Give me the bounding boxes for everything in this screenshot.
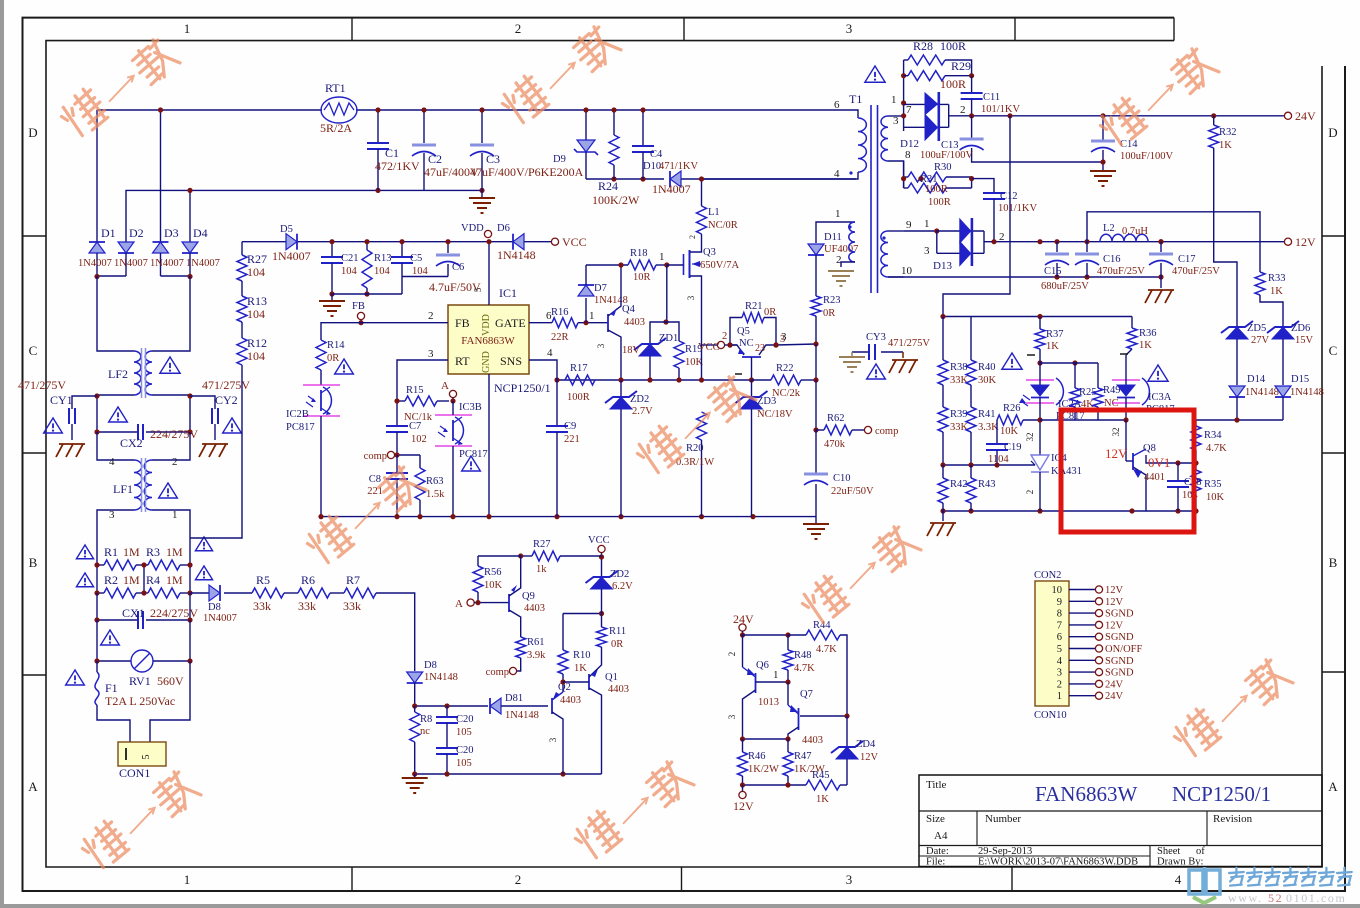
diode D1 [89,242,105,253]
svg-text:NC/0R: NC/0R [708,220,738,231]
svg-text:D81: D81 [505,693,523,704]
svg-text:NC/18V: NC/18V [757,409,793,420]
svg-text:0R: 0R [823,308,835,319]
svg-text:471/275V: 471/275V [202,378,250,392]
svg-text:1: 1 [184,872,191,887]
resistor R44 [806,630,840,640]
svg-text:471/275V: 471/275V [888,338,930,349]
wire to LF1 [97,432,134,460]
node R23 bottom [813,341,818,346]
R30 parallel pair [903,161,905,188]
svg-text:12V: 12V [1105,585,1124,596]
svg-text:30K: 30K [978,375,997,386]
wire VCC tap [701,345,703,380]
TVS D9 [585,110,587,140]
svg-text:ZD2: ZD2 [610,569,629,580]
svg-text:560V: 560V [157,674,184,688]
svg-text:2: 2 [172,456,178,468]
transistor Q6 [742,635,744,667]
svg-text:R34: R34 [1204,430,1222,441]
svg-text:470uF/25V: 470uF/25V [1097,266,1145,277]
svg-text:C20: C20 [456,714,474,725]
wire RT pin [397,360,448,401]
svg-text:C: C [29,343,38,358]
svg-text:4403: 4403 [624,317,645,328]
svg-text:3: 3 [846,872,853,887]
svg-text:R46: R46 [748,751,766,762]
svg-text:3: 3 [109,509,115,521]
svg-text:1: 1 [184,21,191,36]
thermistor RT1 [321,97,357,123]
bottom rail and ground [415,773,602,775]
svg-text:10K: 10K [685,357,704,368]
svg-text:0V1: 0V1 [1148,455,1170,470]
IC2B emitter wire [320,416,322,517]
svg-text:R61: R61 [527,637,545,648]
svg-text:C20: C20 [456,745,474,756]
IC U1 FAN6863W [448,305,529,374]
svg-text:3: 3 [1057,668,1062,679]
svg-text:R1: R1 [104,545,118,559]
svg-text:9: 9 [906,219,912,231]
svg-text:22R: 22R [551,332,569,343]
svg-text:nc: nc [420,726,430,737]
svg-text:221: 221 [564,434,580,445]
svg-text:NCP1250/1: NCP1250/1 [494,381,551,395]
svg-text:GATE: GATE [495,316,526,330]
svg-text:12V: 12V [1105,597,1124,608]
svg-text:4.7K: 4.7K [816,644,837,655]
svg-text:8: 8 [1057,609,1062,620]
svg-text:3: 3 [781,331,787,343]
svg-text:224/275V: 224/275V [150,606,198,620]
svg-text:RT1: RT1 [325,81,346,95]
wire top rail [97,109,322,111]
svg-text:CY1: CY1 [50,393,73,407]
terminal comp2 [509,667,516,674]
terminal comp [387,451,394,458]
diode D7 [585,298,587,323]
T1 secondary 1 [881,116,888,161]
svg-text:1: 1 [891,94,897,106]
wire to LF2 [97,276,134,351]
svg-text:24V: 24V [1105,691,1124,702]
svg-text:C15: C15 [1044,266,1062,277]
svg-text:10: 10 [901,265,913,277]
terminal comp3 [864,426,871,433]
svg-text:D: D [1328,125,1337,140]
wire GND pin [488,374,490,517]
capacitor C19 [996,420,998,444]
svg-text:PC817: PC817 [286,422,315,433]
svg-text:1K: 1K [1219,140,1232,151]
svg-text:C6: C6 [452,262,464,273]
capacitor C4 [642,110,644,146]
svg-text:C16: C16 [1103,254,1121,265]
svg-text:1N4007: 1N4007 [150,258,184,269]
common mode choke LF1 [134,460,142,510]
svg-text:33k: 33k [298,599,316,613]
capacitor C12 [972,179,994,193]
resistor R13b [366,242,368,250]
svg-text:3: 3 [846,21,853,36]
shunt reg IC4 KA431 [1039,420,1041,455]
rail 739 [743,738,789,740]
svg-text:R20: R20 [686,443,704,454]
diode D81 [490,698,501,714]
warning triangle [160,357,180,373]
svg-text:R63: R63 [426,476,444,487]
MOSFET Q3 [683,254,685,275]
svg-text:472/1KV: 472/1KV [375,159,420,173]
resistor R28 [908,55,945,65]
svg-text:2: 2 [515,872,522,887]
capacitor C21 [331,242,333,257]
svg-text:ON/OFF: ON/OFF [1105,644,1143,655]
svg-text:ZD4: ZD4 [856,739,876,750]
svg-text:D4: D4 [193,226,208,240]
optocoupler IC3B [435,414,472,416]
svg-text:Date:: Date: [926,846,949,857]
svg-text:Drawn By:: Drawn By: [1157,857,1203,868]
svg-text:NC: NC [739,338,754,349]
wire [284,592,298,594]
T1 secondary 2 [881,231,888,277]
svg-text:D12: D12 [900,138,919,150]
capacitor CY1 [72,396,97,409]
svg-text:1N4148: 1N4148 [497,248,536,262]
svg-text:R22: R22 [776,363,794,374]
svg-text:1: 1 [835,208,841,220]
svg-text:32: 32 [1025,433,1035,442]
wire to ZD6 [1260,295,1283,326]
svg-text:5: 5 [1057,644,1062,655]
svg-text:104: 104 [247,265,265,279]
resistor R63 [419,455,421,468]
T1 core [870,105,872,293]
svg-text:3.9k: 3.9k [527,650,546,661]
svg-text:SGND: SGND [1105,609,1134,620]
transistor Q9 [508,594,510,612]
svg-text:Size: Size [926,813,945,825]
svg-text:12V: 12V [1295,235,1316,249]
transistor Q5 [742,356,761,358]
diode D6 [513,234,524,250]
ground symbol main [815,517,817,524]
wire Q4 top [620,265,622,300]
svg-text:R30: R30 [934,162,952,173]
svg-text:3: 3 [596,343,606,348]
svg-text:CON1: CON1 [119,766,150,780]
svg-text:IC3B: IC3B [459,402,482,413]
capacitor C17 [1158,239,1163,244]
svg-text:A4: A4 [934,830,948,842]
svg-text:T2A L 250Vac: T2A L 250Vac [105,694,175,708]
svg-text:D11: D11 [824,232,842,243]
svg-text:29-Sep-2013: 29-Sep-2013 [978,846,1032,857]
svg-text:1M: 1M [123,545,140,559]
diode D8 1N4148 vertical [407,672,423,683]
terminal VCC main [551,238,558,245]
svg-text:1N4007: 1N4007 [652,182,691,196]
svg-text:R13: R13 [247,294,267,308]
svg-text:comp: comp [486,667,509,678]
svg-text:1N4007: 1N4007 [272,249,311,263]
resistor R43 [966,478,976,503]
svg-text:4401: 4401 [1144,472,1165,483]
svg-text:0.3R/1W: 0.3R/1W [676,457,714,468]
24V sense feed [943,116,1010,317]
resistor R42 [938,478,948,503]
svg-text:1N4007: 1N4007 [78,258,112,269]
common mode choke LF2 [134,351,141,395]
terminal VDD [484,230,491,237]
svg-text:FB: FB [455,316,470,330]
svg-text:SNS: SNS [500,354,522,368]
L2 bypass to R33 [1087,212,1260,272]
svg-text:33K: 33K [950,375,969,386]
svg-text:1N4007: 1N4007 [114,258,148,269]
svg-text:VCC: VCC [588,535,610,546]
optocoupler IC2B [303,384,340,386]
svg-text:SGND: SGND [1105,668,1134,679]
capacitor C8 [396,455,398,473]
svg-text:A: A [441,380,449,392]
svg-text:100R: 100R [928,197,951,208]
svg-text:10R: 10R [633,272,651,283]
svg-text:CX2: CX2 [120,436,143,450]
svg-text:C10: C10 [833,473,851,484]
rail 465 [943,464,1035,466]
resistor R22 [749,377,754,382]
svg-text:A: A [1328,779,1338,794]
svg-text:27V: 27V [1251,335,1270,346]
resistor R45 [806,780,840,790]
svg-text:12V: 12V [1105,620,1124,631]
svg-text:VDD: VDD [461,223,484,234]
aux winding D11 loop [816,222,855,243]
resistor R40 [970,317,972,361]
svg-text:5: 5 [141,755,152,760]
svg-text:2: 2 [515,21,522,36]
wire to D8b [376,593,415,671]
svg-text:1K: 1K [816,794,829,805]
resistor R17 [529,360,557,380]
svg-text:12V: 12V [1105,446,1128,461]
resistor R39 [938,407,948,432]
wire R10 top [563,613,602,615]
capacitor C1 [377,110,379,143]
svg-text:100uF/100V: 100uF/100V [1120,151,1174,162]
svg-text:6: 6 [1057,632,1062,643]
svg-text:R38: R38 [950,362,968,373]
svg-text:R32: R32 [1219,127,1237,138]
svg-text:D3: D3 [164,226,179,240]
transistor Q4 [607,314,609,332]
startup chain R27/R13/R12 [241,242,243,255]
svg-text:C19: C19 [1004,442,1022,453]
svg-text:A: A [455,598,463,610]
svg-text:10K: 10K [1206,492,1225,503]
resistor R62 [816,429,824,431]
ground below C3 [481,190,483,198]
svg-text:1N4007: 1N4007 [186,258,220,269]
resistor R25 [1072,360,1077,365]
svg-text:C2: C2 [428,152,442,166]
diode D15 [1275,386,1291,397]
svg-text:105: 105 [456,758,472,769]
svg-text:8: 8 [905,149,911,161]
svg-text:C17: C17 [1178,254,1196,265]
svg-text:1N4007: 1N4007 [203,613,237,624]
wire Q5 to R23 node [776,344,816,345]
resistor R47 [787,739,789,752]
svg-text:C4: C4 [650,149,663,160]
svg-text:C7: C7 [409,421,421,432]
resistor R56 [478,555,521,557]
svg-text:18V: 18V [622,345,641,356]
svg-text:102: 102 [411,434,427,445]
resistor R2 [97,592,104,594]
resistor R1 [97,564,104,566]
svg-text:R39: R39 [950,409,968,420]
svg-text:1K/2W: 1K/2W [748,764,779,775]
svg-text:FB: FB [352,301,365,312]
svg-text:A: A [28,779,38,794]
inductor L1 [701,179,703,206]
svg-text:R41: R41 [978,409,996,420]
resistor R32 [1213,116,1215,125]
ground R42 [942,511,944,521]
svg-text:650V/7A: 650V/7A [700,260,740,271]
svg-text:D8: D8 [424,660,437,671]
svg-text:52: 52 [1268,891,1283,905]
24V rail [972,115,1285,117]
svg-text:6: 6 [834,99,840,111]
svg-text:D13: D13 [933,260,952,272]
main ground rail 517 [321,516,816,518]
svg-text:R18: R18 [630,248,648,259]
svg-text:0R: 0R [611,639,623,650]
svg-text:D15: D15 [1291,374,1309,385]
svg-text:100R: 100R [567,392,590,403]
wire second rail [126,190,482,242]
svg-text:VCC: VCC [698,342,720,353]
ground C14 [1090,170,1116,172]
svg-text:R3: R3 [146,545,160,559]
resistor R36 [1131,317,1133,329]
transistor Q7 [787,682,789,705]
wire LF1 out [97,510,134,565]
svg-text:D: D [28,125,37,140]
capacitor C7 [396,401,398,426]
svg-text:C: C [1329,343,1338,358]
svg-text:7: 7 [1057,620,1062,631]
svg-text:1N4148: 1N4148 [1290,387,1324,398]
svg-text:R12: R12 [247,336,267,350]
svg-text:Revision: Revision [1213,813,1253,825]
terminal A2 [449,390,456,397]
diode D5 [286,234,297,250]
svg-text:1: 1 [659,251,665,263]
terminal 12V out [742,785,744,791]
svg-text:32: 32 [1111,428,1121,437]
svg-text:105: 105 [456,727,472,738]
svg-text:PC817: PC817 [459,449,488,460]
12V rail [994,241,1284,243]
gate row wire [586,264,628,266]
wire left drop [96,110,98,242]
svg-text:Number: Number [985,813,1021,825]
svg-text:R48: R48 [794,650,812,661]
svg-text:D8: D8 [208,602,221,613]
svg-text:FAN6863W: FAN6863W [1035,782,1137,806]
svg-text:Q8: Q8 [1143,443,1156,454]
svg-text:D9: D9 [553,154,566,165]
svg-text:1013: 1013 [758,697,779,708]
resistor R27 1k [521,555,532,557]
svg-text:100R: 100R [925,184,948,195]
svg-text:33k: 33k [343,599,361,613]
svg-text:R7: R7 [346,573,360,587]
resistor R6 [298,588,330,598]
wire feed to startup chain [190,365,242,538]
svg-text:Q5: Q5 [737,326,750,337]
capacitor CX2 [97,431,138,433]
svg-text:of: of [1196,846,1205,857]
svg-text:101/1KV: 101/1KV [998,203,1038,214]
fuse F1 [96,661,98,672]
svg-text:2: 2 [428,310,434,322]
svg-text:Q4: Q4 [622,304,636,315]
resistor R5 [252,588,284,598]
svg-text:3: 3 [727,714,737,719]
svg-text:471/1KV: 471/1KV [659,161,699,172]
SGND rail 277 [888,276,1161,278]
watermarks [55,35,184,141]
rail 179 D9 network [586,178,664,180]
inductor L2 [1100,234,1148,241]
svg-text:3: 3 [893,115,899,127]
svg-text:R43: R43 [978,479,996,490]
svg-text:0101.com: 0101.com [1286,891,1346,905]
capacitor C2 [423,110,425,143]
svg-text:VDD: VDD [481,314,492,336]
svg-text:Q1: Q1 [605,672,618,683]
svg-text:1N4148: 1N4148 [505,710,539,721]
svg-text:3.3K: 3.3K [978,422,999,433]
svg-text:1: 1 [1057,691,1062,702]
zener ZD2 6.2V [601,557,603,577]
svg-text:R10: R10 [573,650,591,661]
svg-text:RT: RT [455,354,470,368]
svg-text:B: B [29,555,38,570]
svg-text:5R/2A: 5R/2A [320,121,352,135]
resistor R15 [397,400,405,402]
svg-text:ZD6: ZD6 [1291,323,1310,334]
svg-text:R36: R36 [1139,328,1157,339]
resistor R33 [1255,272,1265,295]
svg-text:24V: 24V [1105,679,1124,690]
svg-text:R27: R27 [533,539,551,550]
svg-text:CON2: CON2 [1034,570,1061,581]
svg-text:3: 3 [924,245,930,257]
svg-text:470uF/25V: 470uF/25V [1172,266,1220,277]
wire to ZD5 [1214,148,1237,326]
svg-text:NC/2k: NC/2k [772,388,801,399]
svg-text:D5: D5 [280,224,293,235]
svg-text:R13: R13 [374,253,392,264]
